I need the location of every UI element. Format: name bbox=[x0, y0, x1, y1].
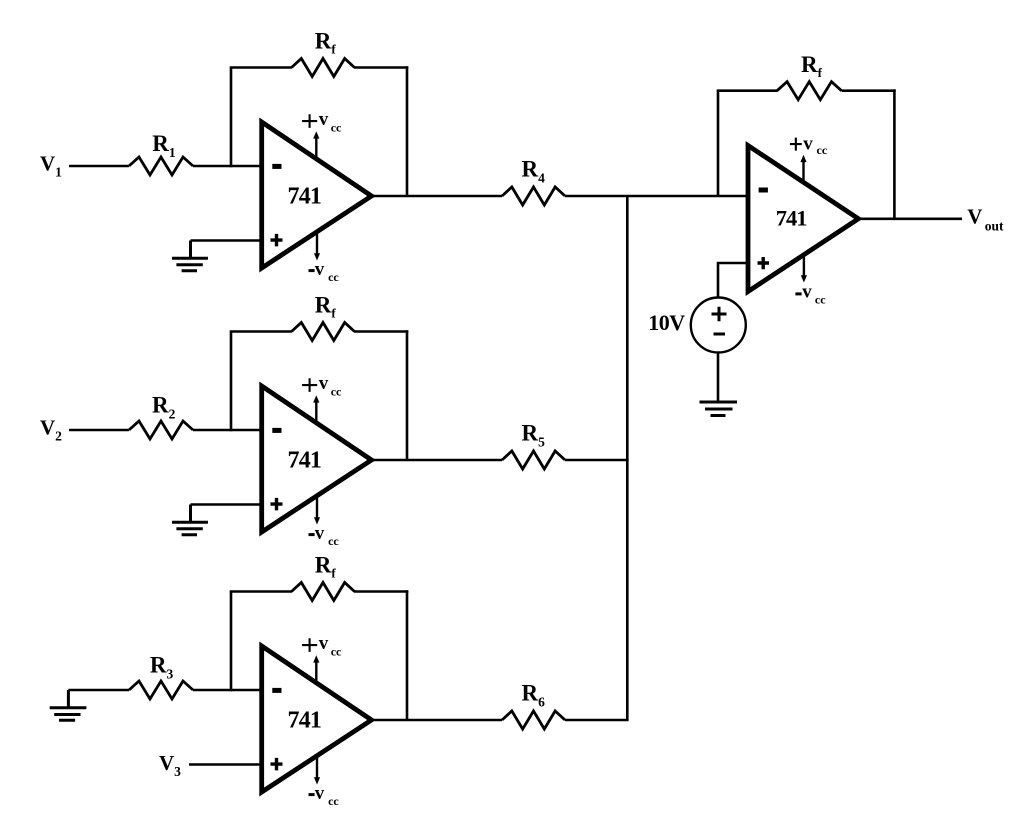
U4 inverting pin minus sign bbox=[759, 188, 768, 193]
wire R3 to U3 inverting input bbox=[193, 689, 260, 692]
wire U1 output bbox=[372, 195, 503, 198]
wire R4 to summing node and U4 inverting input bbox=[565, 195, 748, 198]
wire feedback tap vertical (U1) bbox=[230, 68, 233, 168]
resistor Rf (stage 2) bbox=[292, 323, 355, 341]
wire ground to R3 bbox=[68, 689, 129, 692]
resistor R6 bbox=[502, 711, 565, 729]
resistor Rf (stage 3) bbox=[292, 583, 355, 601]
ground symbol (R3 input) bbox=[50, 690, 87, 720]
+vcc supply arrow (U2) bbox=[315, 402, 317, 423]
wire U2 output bbox=[372, 459, 503, 462]
wire R2 to U2 inverting input bbox=[193, 429, 260, 432]
wire R5 to summing node bbox=[565, 459, 629, 462]
+vcc supply arrow (U1) bbox=[315, 138, 317, 159]
wire feedback top left (U2) bbox=[230, 330, 292, 333]
resistor R3 bbox=[129, 681, 193, 699]
wire U3 output bbox=[372, 719, 503, 722]
10V source polarity marks bbox=[712, 307, 727, 334]
op-amp U4 triangle bbox=[748, 146, 858, 292]
+vcc supply arrow (U4) bbox=[802, 162, 804, 183]
wire feedback top left (U1) bbox=[230, 66, 292, 69]
U3 inverting pin minus sign bbox=[272, 688, 281, 693]
-vcc label (U1) bbox=[309, 269, 315, 272]
op-amp U1 triangle bbox=[262, 122, 372, 268]
U1 non-inverting pin plus sign bbox=[271, 234, 283, 247]
U1 inverting pin minus sign bbox=[272, 164, 281, 169]
wire feedback right vertical (U3) bbox=[406, 590, 409, 720]
wire feedback right vertical (U4) bbox=[893, 89, 896, 218]
wire feedback top right (U3) bbox=[354, 590, 408, 593]
wire feedback tap vertical (U2) bbox=[230, 332, 233, 432]
resistor R2 bbox=[129, 421, 193, 439]
-vcc supply arrow (U3) bbox=[316, 756, 318, 778]
ground symbol (10V source) bbox=[700, 402, 738, 416]
wire feedback tap vertical (U4) bbox=[717, 91, 720, 196]
wire ground to U1 non-inverting input bbox=[191, 239, 260, 242]
wire feedback top left (U4) bbox=[717, 89, 778, 92]
+vcc label (U3) bbox=[302, 638, 317, 652]
wire summing node vertical bus bbox=[626, 196, 629, 720]
svg-text:10V: 10V bbox=[648, 310, 685, 335]
wire feedback right vertical (U1) bbox=[406, 66, 409, 196]
resistor Rf (output stage) bbox=[777, 82, 842, 100]
wire U4 output bbox=[858, 218, 962, 221]
resistor R5 bbox=[502, 451, 565, 469]
wire feedback tap vertical (U3) bbox=[230, 592, 233, 692]
ground symbol (U1 non-inverting input) bbox=[172, 241, 208, 271]
svg-text:741: 741 bbox=[288, 708, 322, 734]
wire V2 to R2 bbox=[69, 429, 129, 432]
wire 10V source to ground bbox=[717, 353, 720, 403]
U4 non-inverting pin plus sign bbox=[758, 257, 770, 269]
svg-text:741: 741 bbox=[288, 448, 322, 474]
wire feedback top right (U2) bbox=[354, 330, 408, 333]
U2 non-inverting pin plus sign bbox=[271, 498, 283, 511]
-vcc supply arrow (U4) bbox=[803, 255, 805, 276]
voltage source 10V circle bbox=[691, 298, 746, 353]
wire feedback right vertical (U2) bbox=[406, 330, 409, 460]
+vcc label (U4) bbox=[790, 138, 802, 151]
op-amp U2 triangle bbox=[262, 386, 372, 532]
U2 inverting pin minus sign bbox=[272, 428, 281, 433]
resistor R4 bbox=[502, 187, 565, 205]
wire ground to U2 non-inverting input bbox=[191, 503, 260, 506]
+vcc label (U1) bbox=[302, 114, 317, 128]
op-amp U3 triangle bbox=[262, 646, 372, 792]
svg-text:741: 741 bbox=[288, 184, 322, 210]
-vcc supply arrow (U1) bbox=[316, 232, 318, 254]
wire feedback top left (U3) bbox=[230, 590, 292, 593]
wire V3 to U3 non-inverting input bbox=[189, 763, 260, 766]
ground symbol (U2 non-inverting input) bbox=[172, 505, 208, 535]
wire R1 to U1 inverting input bbox=[193, 165, 260, 168]
resistor R1 bbox=[129, 157, 193, 175]
-vcc label (U3) bbox=[309, 793, 315, 796]
wire V1 to R1 bbox=[69, 165, 129, 168]
U3 non-inverting pin plus sign bbox=[271, 758, 283, 771]
+vcc supply arrow (U3) bbox=[315, 662, 317, 683]
-vcc label (U2) bbox=[309, 533, 315, 536]
wire R6 to summing node bbox=[565, 719, 629, 722]
-vcc supply arrow (U2) bbox=[316, 496, 318, 518]
+vcc label (U2) bbox=[302, 378, 317, 392]
wire feedback top right (U1) bbox=[354, 66, 408, 69]
wire feedback top right (U4) bbox=[842, 89, 896, 92]
svg-text:741: 741 bbox=[776, 205, 808, 230]
-vcc label (U4) bbox=[795, 292, 801, 295]
resistor Rf (stage 1) bbox=[292, 59, 355, 77]
wire 10V source to U4 non-inverting input bbox=[718, 263, 748, 298]
